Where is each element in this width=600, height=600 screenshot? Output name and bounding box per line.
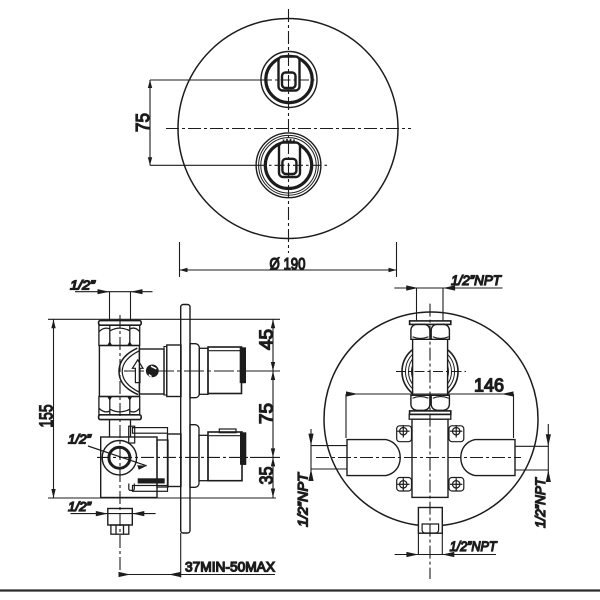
- bracket tab TL: [397, 425, 412, 442]
- bracket tab BR: [449, 478, 464, 492]
- bottom border line: [0, 589, 600, 591]
- dimension 1/2 NPT top (back): [394, 285, 502, 290]
- right pipe (back): [461, 440, 515, 476]
- dimension 37MIN-50MAX: [119, 533, 276, 578]
- bottom outlet fitting (side): [108, 509, 133, 526]
- dimension 75 (front view): [148, 80, 152, 165]
- vertical tube (masks boss): [413, 339, 448, 402]
- bottom knob crosshair: [150, 164, 256, 166]
- top knob crosshair: [150, 79, 262, 81]
- svg-text:1/2”: 1/2”: [68, 499, 92, 514]
- top knob center square: [282, 73, 296, 89]
- cartridge knob (side): [208, 347, 242, 394]
- bottom fitting (back): [418, 508, 442, 534]
- cartridge flange (side): [167, 345, 181, 397]
- svg-text:37MIN-50MAX: 37MIN-50MAX: [185, 559, 276, 575]
- bottom knob horizontal centerline: [256, 164, 327, 166]
- top knob thick ring: [266, 56, 312, 102]
- svg-text:75: 75: [257, 403, 277, 424]
- lower mounting bar: [133, 486, 168, 492]
- inlet hex nut top (side): [99, 325, 140, 345]
- lower hex nut cap (back): [410, 411, 451, 415]
- bottom fitting inner: [422, 524, 439, 533]
- svg-text:45: 45: [257, 329, 277, 350]
- dimensions 45 75 35 (side view right): [250, 319, 280, 497]
- lower hex nut faces (back): [411, 395, 430, 410]
- bottom knob center square: [282, 159, 296, 174]
- lower dark bar: [138, 478, 165, 483]
- side view lower cartridge centerline: [97, 456, 250, 458]
- lower cartridge knob (side): [208, 432, 242, 481]
- check valve body (side): [99, 346, 139, 397]
- back view upper horizontal centerline: [396, 371, 466, 373]
- front plate circle: [178, 19, 398, 239]
- top knob horizontal centerline: [262, 79, 317, 81]
- cartridge gasket right of plate: [190, 344, 199, 398]
- cartridge ring: [199, 348, 208, 394]
- lower tube to flange: [157, 440, 168, 487]
- top pipe stub (back): [416, 288, 418, 321]
- lower collar (back): [409, 414, 451, 419]
- dimension 1/2 bottom (side view): [71, 511, 156, 516]
- svg-text:1/2”: 1/2”: [68, 432, 92, 447]
- svg-text:1/2”: 1/2”: [70, 278, 96, 293]
- adjusting screw (filled): [146, 365, 159, 378]
- svg-text:1/2”NPT: 1/2”NPT: [532, 477, 548, 528]
- upper mounting tab: [129, 426, 135, 443]
- bottom knob thick ring: [265, 142, 311, 188]
- side view vertical centerline: [119, 315, 121, 579]
- dimension 1/2 NPT right (back): [546, 424, 551, 482]
- leader line 1/2: [88, 446, 147, 466]
- bracket tab BL: [397, 478, 412, 492]
- dimension 155 (side view): [48, 319, 280, 498]
- top knob outer circle: [261, 52, 317, 108]
- pipe stub to lower body: [109, 420, 111, 437]
- lower ring: [199, 435, 208, 480]
- svg-text:75: 75: [133, 113, 153, 132]
- svg-text:1/2”NPT: 1/2”NPT: [295, 472, 311, 527]
- dimension 146: [346, 391, 514, 438]
- svg-text:1/2”NPT: 1/2”NPT: [451, 272, 502, 288]
- inlet hex nut bottom (side): [99, 397, 140, 415]
- bracket tab TR: [449, 425, 464, 442]
- cartridge ring (side): [164, 347, 167, 396]
- check valve throat curve: [119, 348, 138, 394]
- threaded boss circles (behind pipe): [402, 344, 458, 400]
- left pipe (back): [347, 440, 400, 476]
- left pipe stub lines: [311, 445, 347, 447]
- side view upper cartridge centerline: [124, 370, 255, 372]
- dimension 1/2 top (side view): [75, 289, 153, 320]
- inlet pipe top cap (side): [99, 321, 142, 326]
- dimension diameter 190 (front view): [180, 242, 397, 277]
- flow arrow: [132, 360, 143, 383]
- thermostatic cartridge tube (side): [139, 349, 164, 394]
- pipe cap below nut (side): [99, 415, 142, 420]
- bottom outlet hex: [111, 525, 129, 534]
- upper hex nut faces (back): [411, 324, 430, 339]
- upper mounting bar: [133, 428, 168, 434]
- lower gasket right of plate: [190, 425, 199, 488]
- volume valve circle: [102, 441, 136, 475]
- dimension 1/2 NPT bottom (back): [395, 533, 496, 557]
- central tube (back): [412, 419, 448, 497]
- back view horizontal centerline (pipes): [316, 457, 521, 459]
- bottom knob grip ticks: [284, 139, 295, 144]
- horizontal centerline of front view: [166, 128, 411, 130]
- dimension 1/2 NPT left (back): [308, 429, 313, 481]
- back plate circle: [324, 312, 538, 526]
- svg-text:35: 35: [257, 467, 277, 485]
- volume valve thick ring: [109, 447, 130, 468]
- lower flange (side): [168, 434, 182, 487]
- svg-text:Ø 190: Ø 190: [270, 255, 306, 274]
- top knob handle: [279, 57, 300, 91]
- right pipe stub lines: [515, 445, 548, 447]
- volume valve body (side, lower): [101, 437, 157, 498]
- bottom knob handle: [279, 143, 300, 178]
- bottom knob outer circles: [256, 133, 321, 198]
- back view vertical centerline: [429, 304, 431, 579]
- svg-text:155: 155: [37, 405, 57, 428]
- wall plate (side): [181, 305, 190, 534]
- svg-text:1/2”NPT: 1/2”NPT: [450, 538, 498, 554]
- lower U tab: [129, 484, 135, 491]
- vertical centerline of front view: [288, 9, 290, 253]
- upper hex nut cap (back): [410, 321, 451, 325]
- svg-text:146: 146: [474, 376, 504, 396]
